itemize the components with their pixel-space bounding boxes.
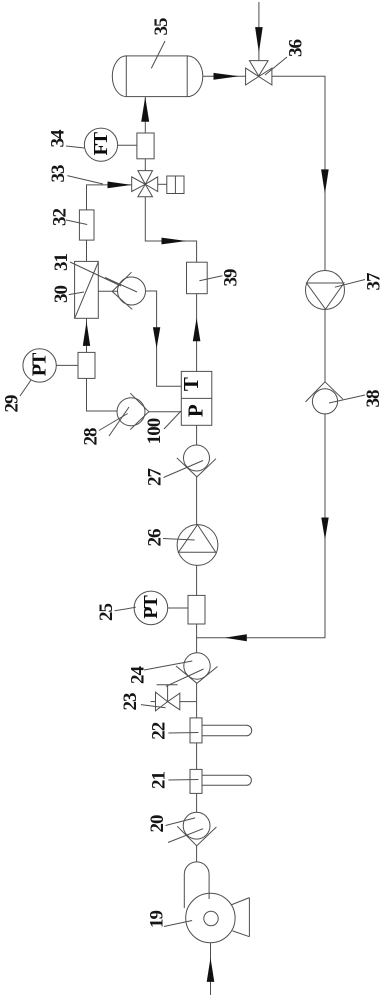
svg-text:29: 29: [2, 395, 23, 413]
lead line 23: [141, 705, 166, 708]
wire valve 24 to heater 22 with branch: [196, 683, 198, 718]
junction block of PT 25: [188, 595, 205, 624]
arrow down to pump 37: [321, 169, 329, 193]
test unit 100 (P/T box): [181, 371, 212, 425]
lead line 34: [66, 146, 85, 148]
arrow valve 33 to 39: [162, 238, 187, 245]
rect 32: [79, 210, 94, 240]
pump 19: [186, 893, 235, 942]
svg-text:37: 37: [364, 272, 384, 291]
valve 20: [183, 812, 210, 839]
svg-text:31: 31: [51, 254, 72, 272]
wire rect 30 to valve 31: [98, 290, 117, 292]
junction block of PT 29: [78, 352, 95, 378]
svg-text:T: T: [179, 377, 203, 391]
instrument PT 29: [23, 349, 56, 382]
svg-text:PT: PT: [29, 352, 51, 376]
lead line 38 with diagonal: [329, 395, 365, 403]
svg-text:100: 100: [144, 418, 165, 444]
arrow up into pump 19: [207, 958, 215, 982]
lead line 33: [67, 176, 103, 184]
wire valve 36 to right return line: [272, 76, 325, 270]
wire valve 33 to rect 39: [145, 197, 196, 263]
wire valve 31 to port T of 100: [146, 291, 182, 386]
svg-text:26: 26: [145, 529, 166, 547]
lead line 19: [164, 921, 192, 927]
lead line 36: [265, 57, 287, 75]
valve 38: [312, 389, 337, 414]
valve 28: [117, 398, 145, 426]
svg-text:PT: PT: [140, 594, 162, 618]
wire pump 26 to PT junction block: [196, 565, 198, 595]
junction block under vessel (FT orifice): [137, 133, 154, 159]
instrument PT 25: [134, 591, 168, 625]
svg-text:33: 33: [48, 165, 69, 183]
wire junction block to valve 24: [196, 624, 198, 653]
wire PT 29 to junction block: [56, 364, 78, 366]
wire rect 30 to PT junction block: [86, 318, 88, 352]
wire heater 22 to heater 21: [196, 743, 198, 769]
arrow up below 39: [193, 318, 201, 341]
wire stub left of valve 23: [151, 701, 156, 703]
arrow into valve 33: [108, 182, 132, 189]
valve 23 gate: [156, 692, 168, 711]
lead line 28: [99, 414, 128, 431]
svg-text:32: 32: [50, 209, 71, 227]
svg-text:35: 35: [151, 18, 172, 36]
wire FT 34 to junction block: [118, 144, 137, 146]
svg-text:P: P: [183, 404, 207, 417]
valve 31: [118, 277, 146, 305]
wire valve 20 to pump 19 inlet pill: [196, 846, 198, 862]
arrow down into valve 36: [255, 27, 263, 52]
svg-text:34: 34: [48, 129, 69, 148]
lead line 30: [69, 292, 84, 295]
lead line 25: [115, 607, 136, 611]
arrow vessel to 36: [214, 73, 239, 80]
wire branch to valve 23: [180, 701, 197, 703]
lead line 32: [66, 220, 87, 225]
lead line 100: [164, 411, 181, 429]
wire pump 37 to valve 38: [324, 309, 326, 382]
valve 27: [184, 445, 210, 471]
wire valve 28 to port P of 100: [149, 411, 182, 413]
arrow down below valve 38: [321, 518, 328, 541]
rect 30 with diagonal: [75, 261, 99, 318]
svg-text:FT: FT: [90, 131, 112, 155]
wire junction block to valve 33: [144, 159, 146, 171]
lead line 27 with diagonal: [164, 461, 204, 478]
heater 22: [190, 718, 202, 743]
wire rect 39 to port T top of 100: [196, 294, 198, 372]
pump 19 inlet pill: [184, 862, 209, 908]
vessel 35: [126, 56, 187, 97]
svg-text:25: 25: [96, 604, 117, 622]
rect 39: [187, 262, 208, 294]
wire pump 19 suction: [210, 943, 212, 995]
svg-text:20: 20: [147, 815, 168, 833]
svg-text:30: 30: [51, 286, 72, 304]
arrow up into vessel 35: [141, 97, 149, 122]
svg-text:23: 23: [120, 693, 141, 711]
lead line 31: [70, 262, 121, 286]
valve 24: [184, 653, 210, 679]
svg-text:22: 22: [148, 722, 169, 740]
wire 100 bottom to valve 27: [196, 425, 198, 445]
wire PT 25 to junction block: [168, 607, 188, 609]
lead line 24: [144, 661, 192, 670]
wire junction block down to valve 28: [87, 378, 118, 411]
wire into valve 33 left port: [87, 185, 132, 210]
valve 36 three-way: [246, 68, 259, 85]
lead line 26: [163, 539, 195, 541]
wire vessel bottom to junction block: [144, 97, 146, 133]
wire vessel 35 to valve 36: [203, 75, 246, 77]
wire heater 21 to valve 20: [196, 793, 198, 812]
arrow down on 31-100 line: [153, 327, 160, 348]
valve 33 four-way: [132, 177, 146, 192]
actuator of valve 33: [167, 176, 184, 194]
lead line 22: [168, 732, 198, 735]
svg-text:28: 28: [81, 428, 102, 446]
pump 26: [177, 525, 218, 566]
lead line 35: [151, 41, 165, 68]
svg-text:38: 38: [363, 390, 384, 408]
svg-text:36: 36: [286, 40, 307, 58]
heater 21: [190, 769, 202, 793]
wire valve 38 down and return to main line: [197, 414, 325, 638]
arrow up into rect 30: [83, 322, 90, 346]
wire rect 32 to rect 30: [86, 240, 88, 261]
instrument FT 34: [84, 128, 117, 161]
lead line 29: [20, 380, 31, 396]
svg-text:19: 19: [147, 911, 168, 929]
lead line 20: [166, 818, 196, 826]
wire valve 27 to pump 26: [196, 477, 198, 525]
arrow left on return line: [225, 634, 247, 641]
lead line 21: [168, 779, 198, 782]
svg-text:39: 39: [221, 269, 242, 287]
svg-text:21: 21: [148, 772, 169, 790]
wire top inlet into valve 36: [258, 2, 260, 61]
pump 37: [306, 271, 345, 310]
lead line 37: [335, 280, 365, 288]
lead line 39: [199, 276, 222, 281]
svg-text:27: 27: [145, 468, 166, 487]
svg-text:24: 24: [128, 666, 149, 685]
